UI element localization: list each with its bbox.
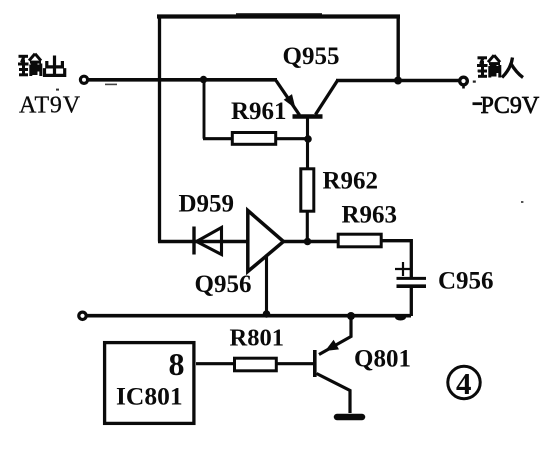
capacitor C956 plus sign: [395, 262, 412, 276]
node: junction Q801 emitter on rail: [347, 312, 355, 320]
svg-text:R801: R801: [230, 325, 284, 352]
wire: R961 left lead horizontal: [203, 137, 232, 140]
capacitor C956 bottom plate: [397, 284, 427, 288]
node: corner blob under C956: [395, 315, 406, 321]
wire: R962 bottom lead: [306, 212, 309, 242]
wire: output horizontal to Q955 emitter: [89, 78, 278, 82]
scan noise specks: [236, 13, 322, 15]
transistor Q955 emitter: [276, 81, 300, 116]
svg-text:Q956: Q956: [195, 271, 252, 298]
svg-text:PC9V: PC9V: [481, 93, 540, 119]
transistor Q801 emitter arrow: [325, 340, 339, 351]
diode D959 triangle: [197, 228, 222, 255]
wire: R963 right lead and corner down: [382, 241, 411, 277]
IC801 box: [105, 343, 194, 424]
svg-text:C956: C956: [438, 268, 494, 295]
node: junction Q956 bottom on rail: [263, 310, 271, 318]
node: junction amplifier output: [304, 238, 312, 246]
node: junction top-right: [394, 77, 402, 85]
wire: left rail to diode: [158, 240, 248, 244]
wire: Q956 output to R963: [283, 240, 338, 244]
transistor Q955 collector: [316, 81, 338, 115]
wire: C956 bottom lead down to bottom rail: [410, 288, 413, 317]
wire: Q956 bottom vertical: [265, 255, 268, 316]
wire: R961 left lead down: [203, 80, 206, 139]
ground: [337, 414, 362, 421]
svg-text:R962: R962: [323, 168, 379, 195]
figure number circle 4: [448, 366, 480, 398]
svg-text:R963: R963: [342, 202, 398, 229]
node: base junction of Q955: [304, 135, 312, 143]
transistor Q955 base bar: [293, 114, 323, 119]
label 输出: [18, 54, 41, 76]
wire: base from R801: [277, 362, 314, 365]
svg-text:IC801: IC801: [116, 382, 183, 411]
terminal: bottom-left: [79, 312, 86, 319]
resistor R801: [235, 358, 277, 371]
label 输入: [477, 55, 500, 77]
svg-text:Q801: Q801: [354, 346, 411, 373]
node: junction at R961 tap: [200, 76, 207, 83]
transistor Q801 base bar: [313, 350, 317, 377]
wire: collector to input terminal: [336, 79, 459, 83]
transistor Q801 collector: [317, 374, 351, 414]
transistor Q955 emitter arrow: [284, 94, 296, 108]
resistor R963: [338, 234, 381, 247]
terminal: output AT9V: [80, 76, 87, 83]
amplifier Q956 triangle: [248, 211, 284, 272]
transistor Q801 emitter: [319, 316, 351, 355]
wire: bottom horizontal rail: [86, 314, 412, 318]
svg-text:R961: R961: [231, 98, 287, 125]
svg-text:D959: D959: [179, 191, 235, 218]
wire: Q955 base down to R962: [306, 118, 309, 168]
terminal: input PC9V: [460, 77, 468, 85]
wire: right vertical drop from top loop: [397, 15, 400, 81]
resistor R961: [232, 133, 275, 145]
wire: R961 right lead to base node: [277, 137, 310, 140]
wire: left vertical rail: [158, 15, 161, 242]
diode D959 cathode bar: [192, 227, 195, 255]
wire: top loop horizontal: [157, 14, 400, 18]
wire: IC801 pin 8 to R801: [196, 362, 233, 365]
capacitor C956 top plate: [397, 277, 427, 280]
svg-text:8: 8: [169, 346, 185, 382]
noise dash before PC9V: [473, 102, 483, 105]
svg-text:4: 4: [456, 366, 472, 401]
svg-text:Q955: Q955: [283, 43, 340, 70]
svg-text:AT9V: AT9V: [19, 93, 81, 119]
resistor R962: [301, 169, 314, 211]
